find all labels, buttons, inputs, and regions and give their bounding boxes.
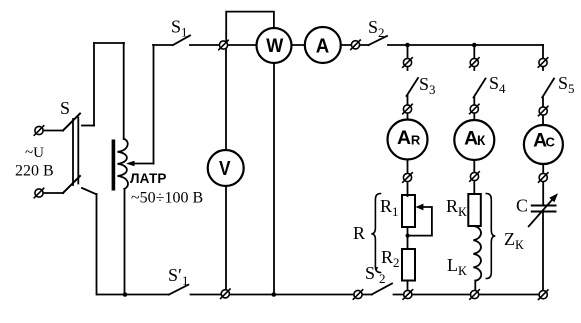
svg-text:К: К xyxy=(477,133,486,148)
svg-text:~50÷100 В: ~50÷100 В xyxy=(131,190,203,207)
svg-text:A: A xyxy=(397,128,411,149)
svg-text:220 В: 220 В xyxy=(15,163,54,180)
svg-text:ЛАТР: ЛАТР xyxy=(130,171,167,186)
svg-text:R: R xyxy=(353,223,365,243)
svg-text:R: R xyxy=(411,132,421,147)
svg-text:A: A xyxy=(316,36,330,58)
svg-text:W: W xyxy=(266,36,283,57)
svg-text:C: C xyxy=(516,196,528,216)
svg-text:S: S xyxy=(60,98,70,118)
svg-text:V: V xyxy=(219,158,231,180)
svg-text:~U: ~U xyxy=(25,145,44,161)
svg-text:С: С xyxy=(546,135,556,150)
